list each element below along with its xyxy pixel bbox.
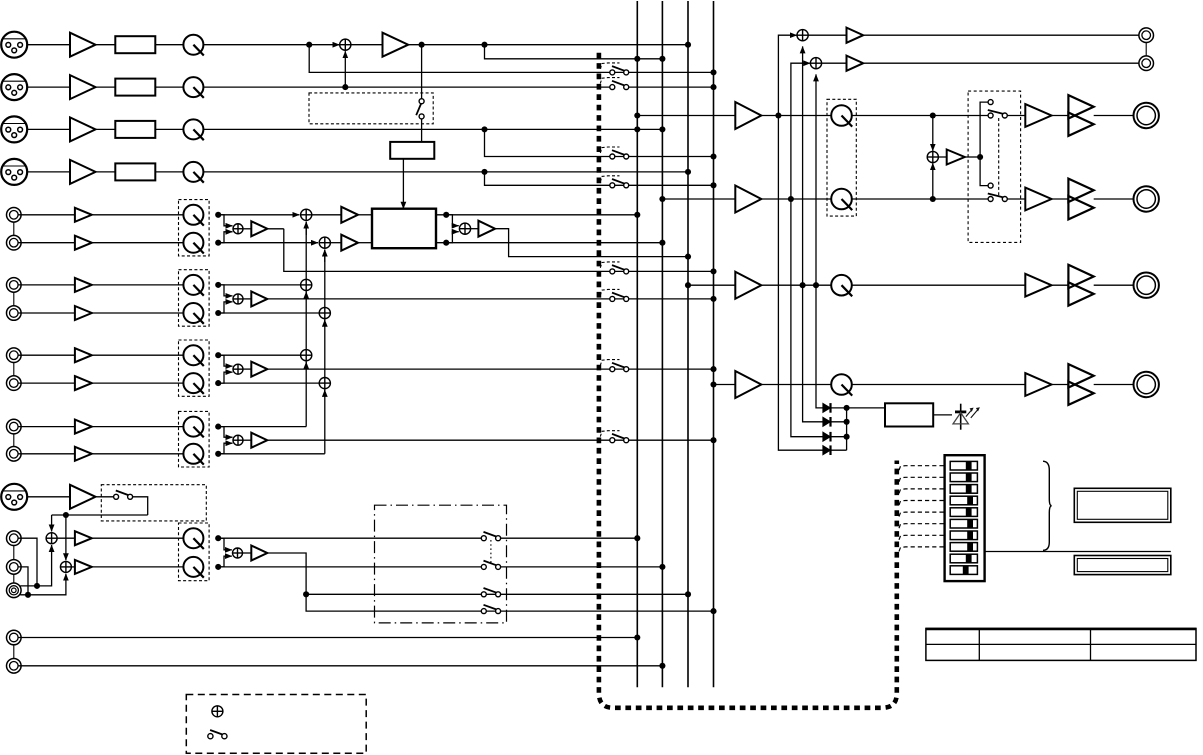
dashed box AUX pot pair <box>179 523 210 581</box>
XLR connector MIC2 input <box>1 74 27 100</box>
wire main amp to mute switch <box>421 45 423 99</box>
wire LINE4 L to pot <box>92 426 184 428</box>
wire arrow up into L summer p3 <box>305 362 307 368</box>
pot AUX R level <box>183 557 203 578</box>
pot AUX out master <box>831 374 852 395</box>
wire LINE2 R into mono sum <box>218 302 232 313</box>
DIP switch element 8 <box>950 543 977 552</box>
op-amp MIC4 head amp <box>70 160 96 184</box>
wire arrow into L top summer <box>305 222 307 235</box>
node AUX L join <box>34 583 40 589</box>
wire MIC1 direct feed to bus4 <box>309 45 713 73</box>
wire MIC2 up into sum S1 <box>344 51 346 87</box>
wire LINE2 R to pot <box>92 312 184 314</box>
op-amp derived mono amp <box>947 150 965 165</box>
block MIC4 filter <box>115 163 155 180</box>
pot LINE3 R level <box>183 373 203 394</box>
wire LINE1 connector link <box>13 222 15 235</box>
op-amp MONO master amp <box>735 272 761 299</box>
wire MIC4 direct feed to bus4 <box>485 172 714 185</box>
block function label box upper <box>1074 488 1171 522</box>
wire ST L pot to mode switch <box>852 115 988 117</box>
node LINE2 R split <box>215 310 221 316</box>
wire ST R up to REC R sum <box>791 63 810 199</box>
dashed box LINE3 pot pair <box>179 340 210 396</box>
node MIC2 junction to sum <box>342 84 348 90</box>
wire control dashes LINE3 switch <box>600 360 619 366</box>
wire AUX R to bus2 <box>501 566 663 568</box>
wire MIC5 in <box>27 496 70 498</box>
wire control dashed link 5 to DIP <box>899 512 945 517</box>
wire LINE3 R into mono sum <box>218 372 232 383</box>
wire LINE1 R in <box>18 242 75 244</box>
switch MIC3 to bus4 <box>610 150 629 159</box>
wire MIC4 amp to filter <box>96 171 116 173</box>
op-amp REC R out amp <box>847 56 864 71</box>
node AUX R join <box>25 592 31 598</box>
RCA connector LINE3 L <box>7 348 22 363</box>
wire control dashed link 4 to DIP <box>899 501 945 506</box>
wire AUX2 connector link <box>13 645 15 659</box>
wire LINE1 R to bus summer <box>218 242 318 244</box>
summer LINE4 mono <box>233 435 243 445</box>
switch mute (vertical) <box>416 99 424 119</box>
node AUX L on bus1 <box>634 535 640 541</box>
wire AUX L into mono sum <box>218 538 232 550</box>
op-amp LINE2 R buffer <box>75 306 92 320</box>
op-amp ST L block driver <box>341 207 358 223</box>
switch legend symbol <box>208 730 227 739</box>
node ST L mono derive <box>930 112 936 118</box>
op-amp AUX pre driver <box>1025 373 1051 396</box>
DIP switch element 7 <box>950 531 977 540</box>
wire MIC1 input to amp <box>27 44 70 46</box>
op-amp REC L out amp <box>847 28 864 43</box>
wire LINE3 L in <box>18 354 75 356</box>
wire LINE1 L into mono sum <box>218 215 232 226</box>
switch LINE3 mono to bus4 <box>610 363 629 372</box>
summer ST bus L top <box>301 209 312 220</box>
block function label box lower <box>1074 556 1171 575</box>
wire MIC3 filter to pot <box>155 128 183 130</box>
node ST L out junction <box>443 212 449 218</box>
RCA connector LINE3 R <box>7 376 22 391</box>
node main on bus1 <box>634 56 640 62</box>
wire main amp output to bus3 <box>408 44 688 46</box>
block MIC2 filter <box>115 79 155 96</box>
wire LINE2 L to pot <box>92 284 184 286</box>
RCA connector LINE1 L <box>7 208 22 223</box>
power-amp ST L (double triangle) <box>1068 95 1093 136</box>
diode D3 ducker sense <box>823 432 831 442</box>
power-amp MONO (double triangle) <box>1068 265 1093 306</box>
switch MIC4 to bus4 <box>610 179 629 188</box>
pot MIC3 level <box>183 119 203 140</box>
wire AUX RCA L down <box>18 538 37 586</box>
wire mono to ST L switch throw <box>980 102 988 157</box>
wire bus3 tap to MONO amp <box>688 284 735 286</box>
op-amp main sum amp <box>383 33 409 57</box>
dashed box mute switch group <box>309 93 433 124</box>
node LINE4 L split <box>215 424 221 430</box>
connector MONO speaker output <box>1134 273 1159 298</box>
op-amp ST R master amp <box>735 186 761 213</box>
op-amp MIC5 head amp <box>70 485 96 509</box>
wire LINE3 mono to bus4 <box>267 368 713 370</box>
wire LINE4 R into mono sum <box>218 443 232 454</box>
brace grouping DIP functions <box>1043 461 1052 550</box>
wire MIC3 direct feed to bus4 <box>485 129 714 156</box>
switch LINE1 mono to bus4 <box>610 265 629 274</box>
op-amp LINE4 R buffer <box>75 447 92 461</box>
wire amp to ST block L <box>358 214 372 216</box>
wire to ST L power amp <box>1007 115 1025 117</box>
wire LINE1 L in <box>18 214 75 216</box>
wire MIC2 filter to pot <box>155 86 183 88</box>
node LINE2 mono on bus4 <box>710 296 716 302</box>
dashed box legend <box>186 695 366 754</box>
pot LINE1 R level <box>183 233 203 254</box>
wire MONO to ducker diode1 <box>816 285 823 408</box>
node diode collect 2 <box>844 419 850 425</box>
wire MIC4 input to amp <box>27 171 70 173</box>
node MIC1 direct on bus4 <box>710 69 716 75</box>
wire control block to ST block (arrow) <box>402 159 404 209</box>
op-amp MIC1 head amp <box>70 33 96 57</box>
wire gang link AUX L/R switches <box>490 540 492 563</box>
wire AUX R to routing switch <box>218 566 481 568</box>
wire AUX R to pot <box>92 566 184 568</box>
wire ST R amp to master pot <box>761 198 831 200</box>
wire AUX RCA R down <box>18 567 28 595</box>
op-amp AUX L buffer <box>75 531 92 545</box>
switch MIC1 to bus4 <box>610 66 629 75</box>
wire ST L into mono sum <box>932 116 934 151</box>
switch AUX mono1 route <box>481 588 500 597</box>
RCA connector AUX R <box>7 560 22 575</box>
RCA connector AUX L <box>7 531 22 546</box>
summer S1 MIC1+MIC2 <box>340 39 351 50</box>
wire ST R driver to power amp <box>1052 198 1069 200</box>
node bus3 tap <box>685 282 691 288</box>
wire MIC5 amp to switch <box>96 496 114 498</box>
wire REC R sum to amp <box>822 62 847 64</box>
summer ST to mono <box>927 151 938 162</box>
wire MIC1 pot to sum (arrow) <box>203 44 339 46</box>
wire gang link mode switches <box>998 118 1000 196</box>
wire AUX L into sum <box>20 545 51 586</box>
pot MIC1 level <box>183 35 203 56</box>
node MONO to rec2 <box>813 282 819 288</box>
node MIC3 on bus1 <box>634 126 640 132</box>
wire bus 3 vertical <box>687 1 689 687</box>
switch MIC5 on/off <box>114 491 133 500</box>
wire REC connector link <box>1145 43 1147 56</box>
switch LINE2 mono to bus4 <box>610 293 629 302</box>
dotted box output mode selector <box>968 91 1021 242</box>
wire MONO driver to power amp <box>1052 284 1069 286</box>
switch ST R mode <box>988 194 1008 202</box>
wire MIC1 filter to pot <box>155 44 183 46</box>
wire mute switch to delay block <box>421 119 423 142</box>
wire diode1 to trigger block <box>831 407 886 409</box>
wire AUX L sum to amp <box>57 537 75 539</box>
XLR connector MIC3 input <box>1 116 27 142</box>
wire MIC5 distribution line <box>52 514 148 516</box>
wire control dashed link 1 to DIP <box>899 466 945 471</box>
wire AUX L to bus1 <box>501 537 638 539</box>
node ST R on bus2 <box>659 240 665 246</box>
wire ST R bus vertical <box>324 250 326 454</box>
node LINE4 R split <box>215 451 221 457</box>
RCA connector LINE4 L <box>7 419 22 434</box>
wire LINE2 R to bus summer <box>218 312 319 314</box>
wire LINE3 mono sum to amp <box>243 368 251 370</box>
diode D2 ducker sense <box>823 417 831 427</box>
summer REC L <box>797 30 808 41</box>
wire LINE4 R to pot <box>92 453 184 455</box>
wire ST R to ducker diode3 <box>791 199 823 437</box>
power-amp AUX (double triangle) <box>1068 364 1093 405</box>
node LINE1 L split <box>215 212 221 218</box>
wire LINE1 R into mono sum <box>218 232 232 243</box>
dashed box LINE2 pot pair <box>179 270 210 327</box>
dashed box LINE1 pot pair <box>179 200 210 256</box>
node LINE3 R split <box>215 380 221 386</box>
wire trigger to LED <box>933 414 952 416</box>
summer REC R <box>810 58 821 69</box>
RCA connector LINE2 L <box>7 278 22 293</box>
wire LINE1 mono to bus4 <box>284 229 714 272</box>
switch LINE4 mono to bus4 <box>610 434 629 443</box>
DIP switch element 9 <box>950 554 977 563</box>
summer R bus pair2 <box>319 307 330 318</box>
wire arrow up into R summer p2 <box>324 320 326 326</box>
wire control dashed link 8 to DIP <box>899 547 945 552</box>
wire control dashed link 3 to DIP <box>899 489 945 494</box>
wire AUX R sum to amp <box>71 566 75 568</box>
node diode collect 1 <box>844 405 850 411</box>
wire LINE3 R to bus summer <box>218 382 319 384</box>
pot LINE4 L level <box>183 417 203 438</box>
wire LINE4 mono sum to amp <box>243 439 251 441</box>
node MIC1 branch junction <box>306 42 312 48</box>
wire diode4 out <box>831 449 847 451</box>
wire LINE3 connector link <box>13 363 15 376</box>
wire ST R into mono sum <box>932 163 934 199</box>
wire MONO up into REC R sum <box>815 74 817 285</box>
wire LINE4 L in <box>18 426 75 428</box>
wire control dashes to MIC1 bus switch <box>600 63 619 69</box>
op-amp AUX R buffer <box>75 560 92 574</box>
op-amp ST R pre driver <box>1025 188 1051 211</box>
node MIC3 direct on bus4 <box>710 153 716 159</box>
wire LINE3 L to pot <box>92 354 184 356</box>
wire AUX R into sum <box>20 574 66 595</box>
wire LINE4 L into mono sum <box>218 427 232 438</box>
node LINE2 L split <box>215 282 221 288</box>
wire control dashes LINE1 switch <box>600 262 619 268</box>
node LINE3 mono on bus4 <box>710 366 716 372</box>
pot ST R master <box>831 189 852 210</box>
wire AUX power amp to speaker jack <box>1094 384 1134 386</box>
wire sum to ST mono amp <box>471 228 479 230</box>
wire MONO power amp to speaker jack <box>1094 284 1134 286</box>
wire bus 1 vertical <box>636 1 638 687</box>
summer LINE2 mono <box>233 294 243 304</box>
wire diode3 out <box>831 436 847 438</box>
wire MIC2 input to amp <box>27 86 70 88</box>
wire ST block L out to bus1 <box>436 214 637 216</box>
wire bus2 tap to ST R amp <box>662 198 735 200</box>
RCA connector REC OUT L <box>1139 28 1154 43</box>
wire ST L driver to power amp <box>1052 115 1069 117</box>
op-amp LINE1 R buffer <box>75 236 92 250</box>
dashed box ST master pot pair <box>827 99 856 216</box>
DIP switch element 4 <box>950 496 977 505</box>
wire ST L amp to master pot <box>761 115 831 117</box>
wire control dashed link 2 to DIP <box>899 477 945 482</box>
wire AUX mono sum to amp <box>243 552 252 554</box>
switch ST L mode <box>988 110 1008 118</box>
wire diode collector <box>846 408 848 450</box>
op-amp AUX mono amp <box>251 546 267 561</box>
node MIC3 on bus2 <box>659 126 665 132</box>
wire LINE4 R in <box>18 453 75 455</box>
node MIC4 direct on bus4 <box>710 182 716 188</box>
wire control dashes to MIC4 bus switch <box>600 176 619 182</box>
node derived mono split <box>977 154 983 160</box>
diode D1 ducker sense <box>823 403 831 413</box>
op-amp LINE3 R buffer <box>75 376 92 390</box>
node diode collect 3 <box>844 434 850 440</box>
wire mono to ST R switch throw <box>980 157 988 186</box>
node MIC5 to R sum <box>63 512 69 518</box>
node MIC4 on bus3 <box>685 169 691 175</box>
summer R bus pair3 <box>319 378 330 389</box>
wire MIC1 amp to filter <box>96 44 116 46</box>
node AUX mono split <box>303 591 309 597</box>
node AUX2 R on bus2 <box>659 663 665 669</box>
wire ST L power amp to speaker jack <box>1094 115 1134 117</box>
op-amp MIC3 head amp <box>70 117 96 141</box>
wire LINE1 mono sum to amp <box>243 228 251 230</box>
node MIC4 branch junction <box>481 169 487 175</box>
wire LINE1 L to pot <box>92 214 184 216</box>
wire ST L bus vertical <box>305 222 307 427</box>
wire LINE1 mono out <box>267 228 284 230</box>
pot MONO master <box>831 275 852 296</box>
DIP switch element 2 <box>950 473 977 482</box>
op-amp LINE4 mono amp <box>251 433 267 448</box>
switch MIC2 to bus4 <box>610 81 629 90</box>
wire derived mono to switch throws <box>965 156 980 158</box>
wire ST R into mono sum <box>446 232 459 243</box>
op-amp ST L master amp <box>735 102 761 129</box>
RCA connector LINE1 R <box>7 235 22 250</box>
node MONO to rec1 <box>800 282 806 288</box>
summer L bus pair3 <box>301 350 312 361</box>
op-amp ST R block driver <box>341 235 358 251</box>
node main on bus2 <box>659 56 665 62</box>
wire AUX connector link 1 <box>13 546 15 560</box>
wire bus 2 vertical <box>661 1 663 687</box>
pot LINE4 R level <box>183 444 203 465</box>
wire MIC5 into R sum <box>65 515 67 560</box>
op-amp LINE2 L buffer <box>75 278 92 292</box>
op-amp LINE3 mono amp <box>251 362 267 377</box>
wire AUX R into mono sum <box>218 556 232 567</box>
op-amp ST mono amp <box>478 221 495 237</box>
node AUX2 L on bus1 <box>634 634 640 640</box>
wire MIC4 pot to bus3 <box>203 171 688 173</box>
op-amp MONO pre driver <box>1025 274 1051 297</box>
wire AUX2 R to bus2 <box>18 665 662 667</box>
wire LINE3 L to bus summer <box>218 354 300 356</box>
XLR connector MIC4 input <box>1 159 27 185</box>
RCA connector AUX2 L <box>7 630 22 645</box>
wire REC R to output jack <box>863 62 1139 64</box>
summer legend symbol <box>212 706 223 717</box>
wire MIC3 amp to filter <box>96 128 116 130</box>
node main amp output junction <box>419 42 425 48</box>
pot LINE2 R level <box>183 303 203 324</box>
op-amp AUX out master amp <box>735 371 761 398</box>
wire R summer to block amp <box>330 242 341 244</box>
op-amp MIC2 head amp <box>70 75 96 99</box>
summer AUX mono <box>233 548 243 558</box>
table notes (2 rows x 3 cols) <box>926 628 1196 660</box>
summer AUX L <box>46 533 57 544</box>
node ST R to rec/duck <box>788 196 794 202</box>
wire AUX driver to power amp <box>1052 384 1069 386</box>
node bus4 tap <box>710 381 716 387</box>
wire LINE4 L to bus corner <box>218 426 306 428</box>
node MIC2 on bus4 <box>710 84 716 90</box>
wire arrow into R top summer <box>324 250 326 263</box>
wire REC L to output jack <box>863 34 1139 36</box>
wire to ST R power amp <box>1007 198 1025 200</box>
dashed box LINE4 pot pair <box>179 411 210 467</box>
pot LINE3 L level <box>183 345 203 366</box>
wire sum to main amp <box>351 44 382 46</box>
wire MIC3 pot to stereo buses <box>203 128 662 130</box>
wire to AUX power amp <box>852 384 1026 386</box>
wire LINE4 mono to bus4 <box>267 439 713 441</box>
node ST L on bus1 <box>634 212 640 218</box>
wire AUX mono feed 1 to bus3 <box>306 593 688 595</box>
wire AUX out amp to pot <box>761 384 831 386</box>
node ST R out junction <box>443 240 449 246</box>
wire LINE3 L into mono sum <box>218 355 232 366</box>
XLR connector MIC5 input <box>1 484 27 510</box>
node ST mono on bus3 <box>685 254 691 260</box>
wire ST R power amp to speaker jack <box>1094 198 1134 200</box>
wire arrow up into L summer p2 <box>305 292 307 298</box>
DIP switch element 6 <box>950 519 977 528</box>
node AUX L split <box>215 535 221 541</box>
wire control dashes to MIC2 bus switch <box>600 78 619 84</box>
node LINE1 mono on bus4 <box>710 268 716 274</box>
wire DIP bank to function display <box>985 551 1171 553</box>
wire MIC2 switch to bus4 <box>629 86 714 88</box>
wire bus1 tap to ST L amp <box>637 115 735 117</box>
op-amp LINE3 L buffer <box>75 348 92 362</box>
node AUX mono2 on bus4 <box>710 608 716 614</box>
summer LINE1 mono <box>233 224 243 234</box>
wire LINE2 mono sum to amp <box>243 298 251 300</box>
wire control dashed link 6 to DIP <box>899 524 945 529</box>
